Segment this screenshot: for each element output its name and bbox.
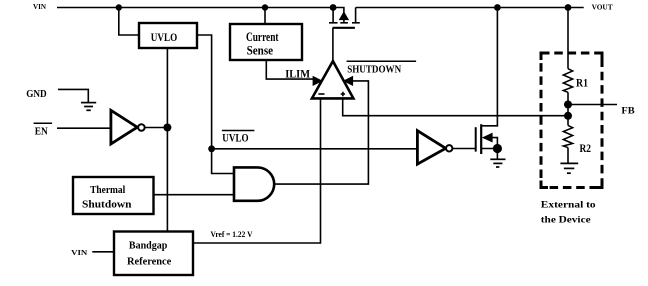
svg-text:VOUT: VOUT [592, 3, 613, 12]
svg-text:the Device: the Device [541, 216, 591, 226]
svg-text:Bandgap: Bandgap [129, 239, 168, 251]
svg-text:Sense: Sense [247, 44, 274, 58]
svg-text:Reference: Reference [127, 255, 171, 267]
svg-text:External to: External to [541, 201, 596, 211]
svg-text:Shutdown: Shutdown [82, 199, 132, 210]
svg-text:UVLO: UVLO [222, 132, 248, 144]
svg-text:SHUTDOWN: SHUTDOWN [347, 64, 402, 75]
svg-text:UVLO: UVLO [151, 32, 177, 44]
svg-text:R2: R2 [580, 143, 592, 155]
svg-text:EN: EN [35, 125, 48, 137]
svg-text:R1: R1 [576, 77, 588, 89]
svg-text:ILIM: ILIM [285, 67, 310, 81]
svg-text:GND: GND [26, 88, 47, 100]
svg-text:VIN: VIN [71, 248, 88, 257]
svg-text:VIN: VIN [33, 2, 47, 11]
svg-text:Current: Current [246, 30, 279, 44]
svg-text:FB: FB [621, 106, 635, 116]
svg-text:Thermal: Thermal [90, 185, 125, 196]
svg-text:Vref = 1.22 V: Vref = 1.22 V [211, 229, 254, 239]
